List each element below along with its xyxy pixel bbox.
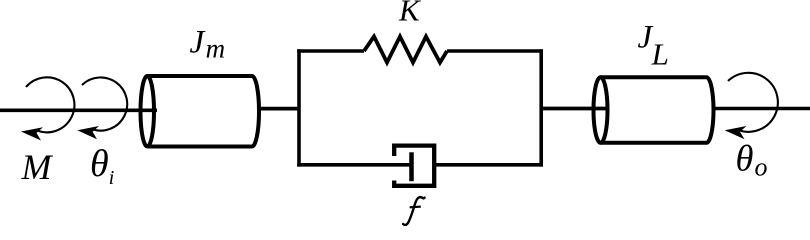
- rotation arrow M: [21, 77, 74, 140]
- svg-text:M: M: [21, 147, 54, 187]
- coupling box right rail: [539, 49, 543, 166]
- shaft input wire: [0, 109, 157, 113]
- shaft output wire: [714, 107, 810, 111]
- label JL: [638, 20, 669, 72]
- svg-text:θi: θi: [90, 143, 115, 189]
- svg-text:JL: JL: [638, 20, 669, 72]
- coupling box bottom-right wire: [434, 163, 543, 167]
- inertia cylinder Jm: [141, 76, 260, 147]
- label Jm: [190, 24, 226, 63]
- label theta_i: [90, 143, 115, 189]
- rotation arrow theta_i: [77, 77, 127, 139]
- damper f cylinder cup: [394, 146, 434, 186]
- coupling box left rail: [297, 49, 301, 166]
- label theta_o: [736, 138, 768, 182]
- wire coupling box to JL: [541, 107, 609, 111]
- coupling box top-left wire: [297, 49, 364, 53]
- svg-text:θo: θo: [736, 138, 768, 182]
- damper f piston plate: [409, 152, 414, 181]
- coupling box top-right wire: [447, 49, 543, 53]
- label K: [398, 0, 422, 28]
- rotation arrow theta_o: [725, 73, 778, 139]
- svg-text:K: K: [398, 0, 422, 28]
- spring K: [364, 37, 447, 63]
- label M: [21, 147, 54, 187]
- coupling box bottom-left wire (damper rod): [297, 163, 409, 167]
- inertia cylinder JL: [594, 77, 714, 143]
- svg-text:Jm: Jm: [190, 24, 226, 63]
- wire Jm to coupling box: [259, 107, 300, 111]
- label f: [403, 197, 425, 225]
